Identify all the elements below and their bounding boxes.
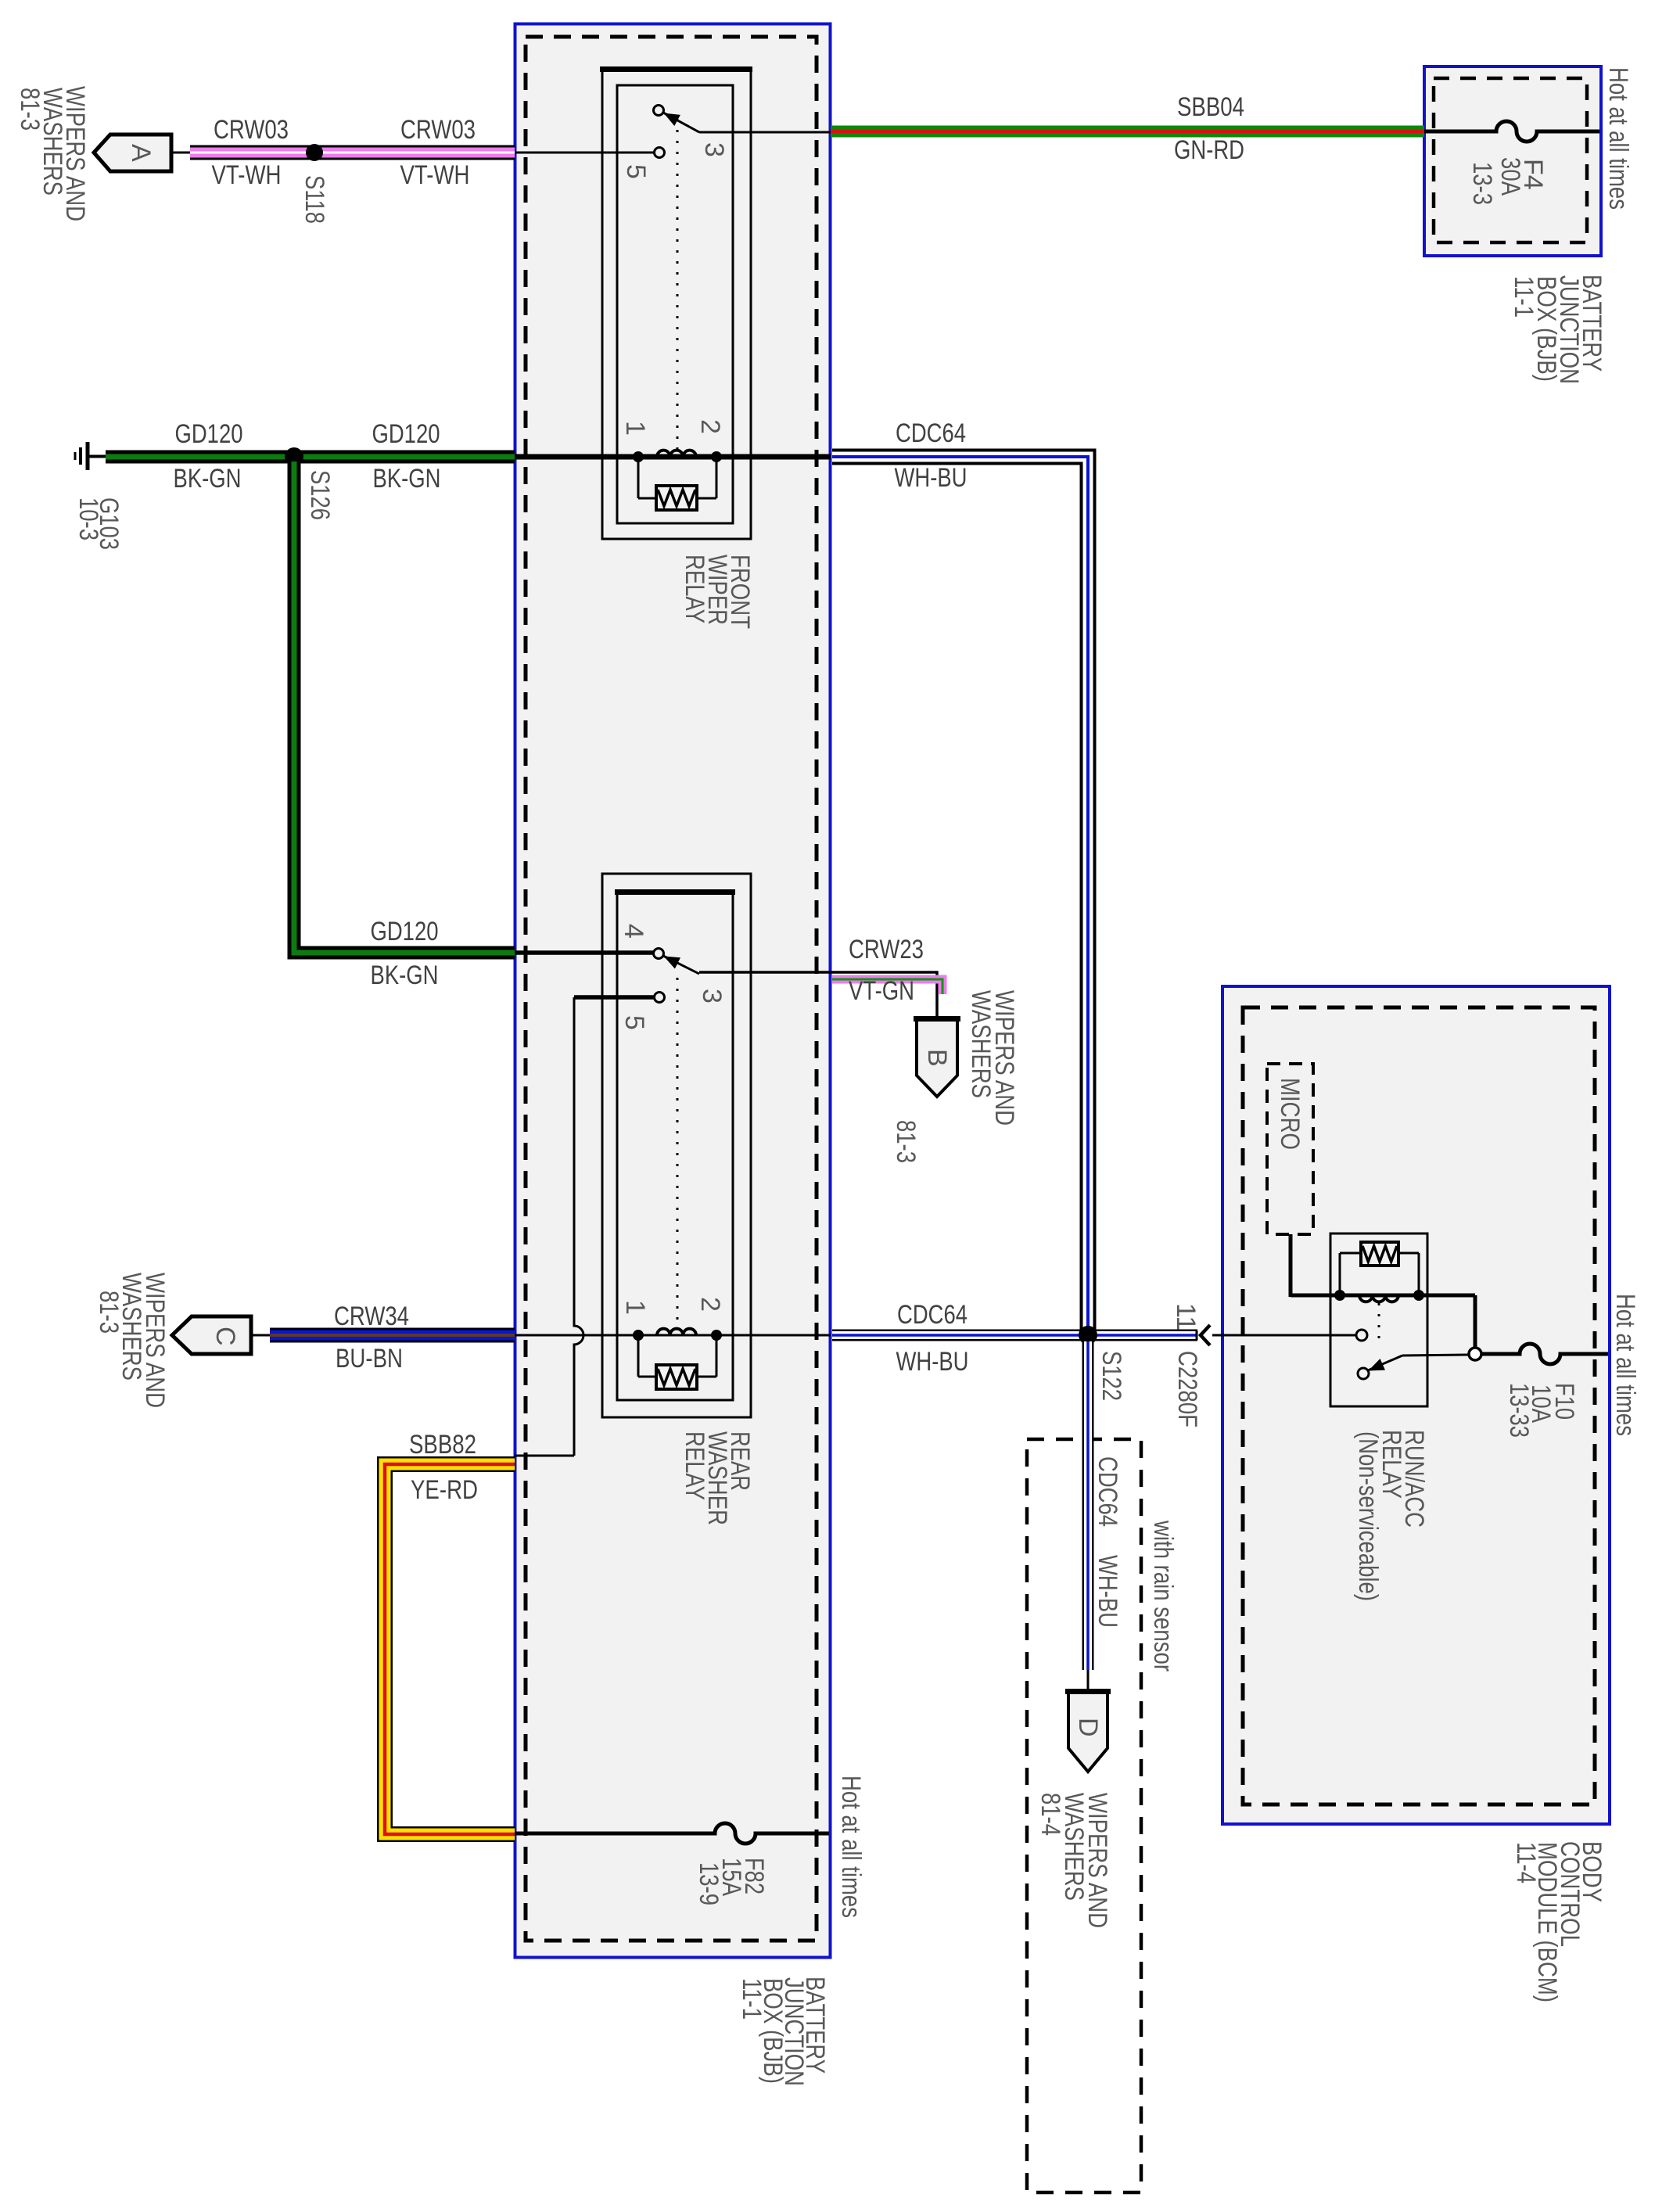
svg-text:CRW03: CRW03 [214, 115, 289, 145]
svg-text:11: 11 [1171, 1303, 1201, 1330]
svg-text:VT-WH: VT-WH [212, 160, 282, 190]
svg-text:S126: S126 [305, 470, 335, 520]
svg-text:BK-GN: BK-GN [174, 464, 242, 494]
svg-text:GN-RD: GN-RD [1174, 135, 1244, 165]
front relay coil junction dots [633, 451, 722, 462]
svg-text:11-4: 11-4 [1511, 1842, 1541, 1883]
svg-text:D: D [1073, 1718, 1103, 1737]
front relay coil [657, 451, 696, 457]
ground label G103 10-3 [74, 497, 124, 550]
wire pin 11 into BCM [1212, 1334, 1356, 1337]
rear washer relay outline [602, 874, 751, 1417]
svg-text:13-9: 13-9 [694, 1862, 723, 1905]
wire CDC64 WH-BU vertical labels [1093, 1456, 1122, 1628]
ground G103 [75, 442, 107, 470]
svg-text:BK-GN: BK-GN [371, 961, 439, 990]
svg-text:4: 4 [619, 924, 648, 939]
wire CRW34 BU-BN (connector C to BJB) [251, 1334, 271, 1337]
front relay pin 3 output line to SBB04 [699, 131, 831, 134]
wire CRW23 VT-GN (rear relay pin3 out to connector B) [699, 972, 937, 1018]
run/acc relay label [1353, 1430, 1429, 1601]
svg-text:5: 5 [619, 1015, 649, 1030]
svg-text:10-3: 10-3 [74, 497, 103, 540]
splice S126 [285, 447, 303, 466]
wire GD120 label third segment [371, 917, 439, 990]
svg-text:SBB82: SBB82 [409, 1430, 476, 1460]
svg-text:CRW03: CRW03 [400, 115, 476, 145]
run/acc relay outline [1330, 1233, 1427, 1406]
battery junction box label (top right) [1509, 275, 1607, 384]
fuse F10 element [1481, 1344, 1608, 1364]
svg-text:30A: 30A [1495, 157, 1525, 196]
svg-text:VT-WH: VT-WH [400, 160, 470, 190]
junction circle on hot row [1469, 1348, 1481, 1360]
battery junction box label (bottom) [737, 1977, 830, 2086]
run/acc relay dotted link [1378, 1303, 1380, 1347]
svg-text:WH-BU: WH-BU [1093, 1555, 1122, 1628]
svg-text:81-4: 81-4 [1036, 1793, 1065, 1836]
svg-text:GD120: GD120 [175, 419, 243, 449]
svg-text:GD120: GD120 [371, 917, 439, 946]
connector C label WIPERS AND WASHERS 81-3 [94, 1273, 170, 1408]
svg-text:C2280F: C2280F [1172, 1351, 1202, 1427]
svg-text:CDC64: CDC64 [896, 418, 966, 448]
svg-text:11-1: 11-1 [737, 1978, 766, 2020]
svg-text:RELAY: RELAY [680, 555, 709, 623]
wire CRW03 inside BJB to pin 5 [515, 152, 655, 154]
svg-text:Hot at all times: Hot at all times [1610, 1294, 1640, 1436]
connector B [914, 1018, 960, 1097]
run/acc relay resistor (parallel, above) [1340, 1242, 1419, 1292]
svg-text:VT-GN: VT-GN [849, 976, 914, 1006]
svg-text:MICRO: MICRO [1275, 1078, 1305, 1150]
rear relay pin 5 feed (thick) [574, 995, 655, 1000]
svg-text:81-3: 81-3 [94, 1291, 124, 1334]
connector B label WIPERS AND WASHERS [966, 990, 1019, 1126]
battery junction box (BJB) outline [515, 24, 831, 1958]
rear relay pin 4 feed line [515, 950, 654, 955]
wire CDC64 WH-BU (front relay coil out, right then down to S122) [832, 457, 1088, 1330]
svg-text:1: 1 [620, 421, 650, 436]
svg-text:(Non-serviceable): (Non-serviceable) [1353, 1431, 1383, 1601]
wire CDC64 label top [895, 418, 968, 493]
front relay dotted link [677, 119, 679, 452]
svg-text:BK-GN: BK-GN [373, 464, 441, 494]
svg-text:2: 2 [695, 1297, 725, 1312]
fuse F82 labels [694, 1858, 769, 1905]
MICRO dashed box [1267, 1064, 1313, 1234]
fuse F4 labels [1467, 157, 1548, 205]
svg-text:5: 5 [621, 164, 651, 179]
front relay resistor R (parallel) [638, 460, 716, 510]
svg-text:CRW34: CRW34 [334, 1302, 409, 1331]
svg-text:BU-BN: BU-BN [336, 1344, 403, 1374]
svg-text:CDC64: CDC64 [1093, 1456, 1122, 1527]
run/acc relay coil row [1291, 1294, 1475, 1298]
rear washer relay label [680, 1431, 755, 1525]
rear relay coil junction dots [633, 1330, 722, 1341]
svg-text:3: 3 [697, 989, 727, 1004]
wire SBB04 GN-RD (BJB to fuse box) [831, 126, 1424, 138]
rear relay coil row (CRW34 / CDC64 through) [515, 1334, 831, 1337]
connector A label WIPERS AND WASHERS 81-3 [15, 86, 90, 221]
wire CRW34 label [334, 1302, 409, 1374]
wire GD120 BK-GN (ground to S126 to BJB) [88, 456, 107, 458]
svg-text:WH-BU: WH-BU [895, 463, 968, 493]
front wiper relay label [680, 555, 755, 629]
wire CRW03 VT-WH (A to S118 to BJB) [171, 152, 192, 154]
rear relay resistor R (parallel) [638, 1338, 716, 1389]
svg-text:11-1: 11-1 [1509, 276, 1538, 318]
front wiper relay outline [600, 68, 752, 539]
body control module (BCM) outline [1222, 986, 1610, 1824]
wire CDC64 label rear [896, 1300, 969, 1377]
fuse F10 labels [1504, 1383, 1579, 1438]
body control module label [1511, 1841, 1607, 2002]
wire CRW03 label right [400, 115, 476, 190]
run/acc relay coil junction dots [1334, 1290, 1424, 1301]
svg-text:A: A [126, 144, 156, 162]
wire GD120 label left [174, 419, 243, 494]
svg-text:81-3: 81-3 [15, 88, 45, 131]
wire GD120 vertical S126 down to rear relay row [294, 461, 515, 953]
wire SBB82 YE-RD (F82 loop outside BJB) [385, 1464, 515, 1834]
fuse F4 element [1424, 121, 1599, 142]
fuse F82 element [515, 1823, 829, 1844]
svg-text:GD120: GD120 [372, 419, 440, 449]
svg-text:Hot at all times: Hot at all times [836, 1776, 866, 1918]
rear relay pin 5 contact [655, 993, 665, 1003]
wire SBB82 inside BJB vertical with hop [574, 997, 583, 1456]
rear relay dotted link [677, 978, 679, 1330]
svg-text:Hot at all times: Hot at all times [1603, 67, 1633, 210]
wire GD120 label right [372, 419, 441, 494]
svg-text:CDC64: CDC64 [897, 1300, 968, 1330]
front relay pin 5 contact [655, 148, 665, 158]
connector C2280F pin 11 chevron [1197, 1325, 1210, 1345]
rear relay coil [657, 1329, 696, 1335]
wire CDC64 WH-BU (S122 down to connector D) [1082, 1341, 1094, 1670]
run/acc relay blade pivot and blade [1358, 1356, 1402, 1379]
run/acc relay fixed contact (pin to 11) [1356, 1330, 1367, 1341]
connector D label WIPERS AND WASHERS 81-4 [1036, 1793, 1112, 1928]
svg-text:S118: S118 [300, 175, 329, 224]
svg-text:S122: S122 [1097, 1351, 1126, 1401]
wire CRW03 label left [212, 115, 289, 190]
splice S122 [1079, 1326, 1097, 1345]
rear relay pin 4 contact and blade [654, 949, 700, 975]
front relay coil row (GD120 / CDC64 through) [515, 454, 831, 460]
svg-text:RELAY: RELAY [680, 1431, 709, 1500]
wire from MICRO to relay coil [1289, 1234, 1293, 1297]
svg-text:WH-BU: WH-BU [896, 1347, 969, 1377]
connector A [94, 135, 171, 171]
svg-text:3: 3 [699, 142, 729, 157]
splice S118 [306, 144, 323, 161]
wire CDC64 WH-BU (rear relay coil out to C2280F) [832, 1330, 1197, 1341]
svg-text:13-3: 13-3 [1467, 162, 1497, 205]
connector C [172, 1316, 251, 1354]
svg-text:81-3: 81-3 [891, 1120, 921, 1163]
wire CRW23 label [849, 935, 924, 1006]
with rain sensor dashed box [1027, 1439, 1141, 2192]
wire SBB04 label [1174, 92, 1244, 165]
connector D [1065, 1690, 1111, 1772]
svg-text:YE-RD: YE-RD [411, 1475, 478, 1505]
front relay pin 3 contact and blade [654, 106, 700, 133]
svg-text:CRW23: CRW23 [849, 935, 924, 964]
svg-text:C: C [210, 1327, 240, 1346]
fuse box (BJB) top right outline [1424, 66, 1601, 256]
run/acc relay coil [1359, 1295, 1398, 1302]
svg-text:13-33: 13-33 [1504, 1383, 1534, 1438]
svg-text:WASHERS: WASHERS [966, 990, 996, 1098]
wire coil to hot row [1474, 1295, 1477, 1348]
run/acc relay blade output line [1402, 1355, 1468, 1356]
svg-text:with rain sensor: with rain sensor [1148, 1520, 1178, 1672]
svg-text:2: 2 [695, 419, 725, 434]
svg-text:B: B [922, 1049, 952, 1067]
svg-text:1: 1 [620, 1300, 650, 1315]
wire SBB82 label [409, 1430, 478, 1505]
svg-text:SBB04: SBB04 [1177, 92, 1244, 122]
